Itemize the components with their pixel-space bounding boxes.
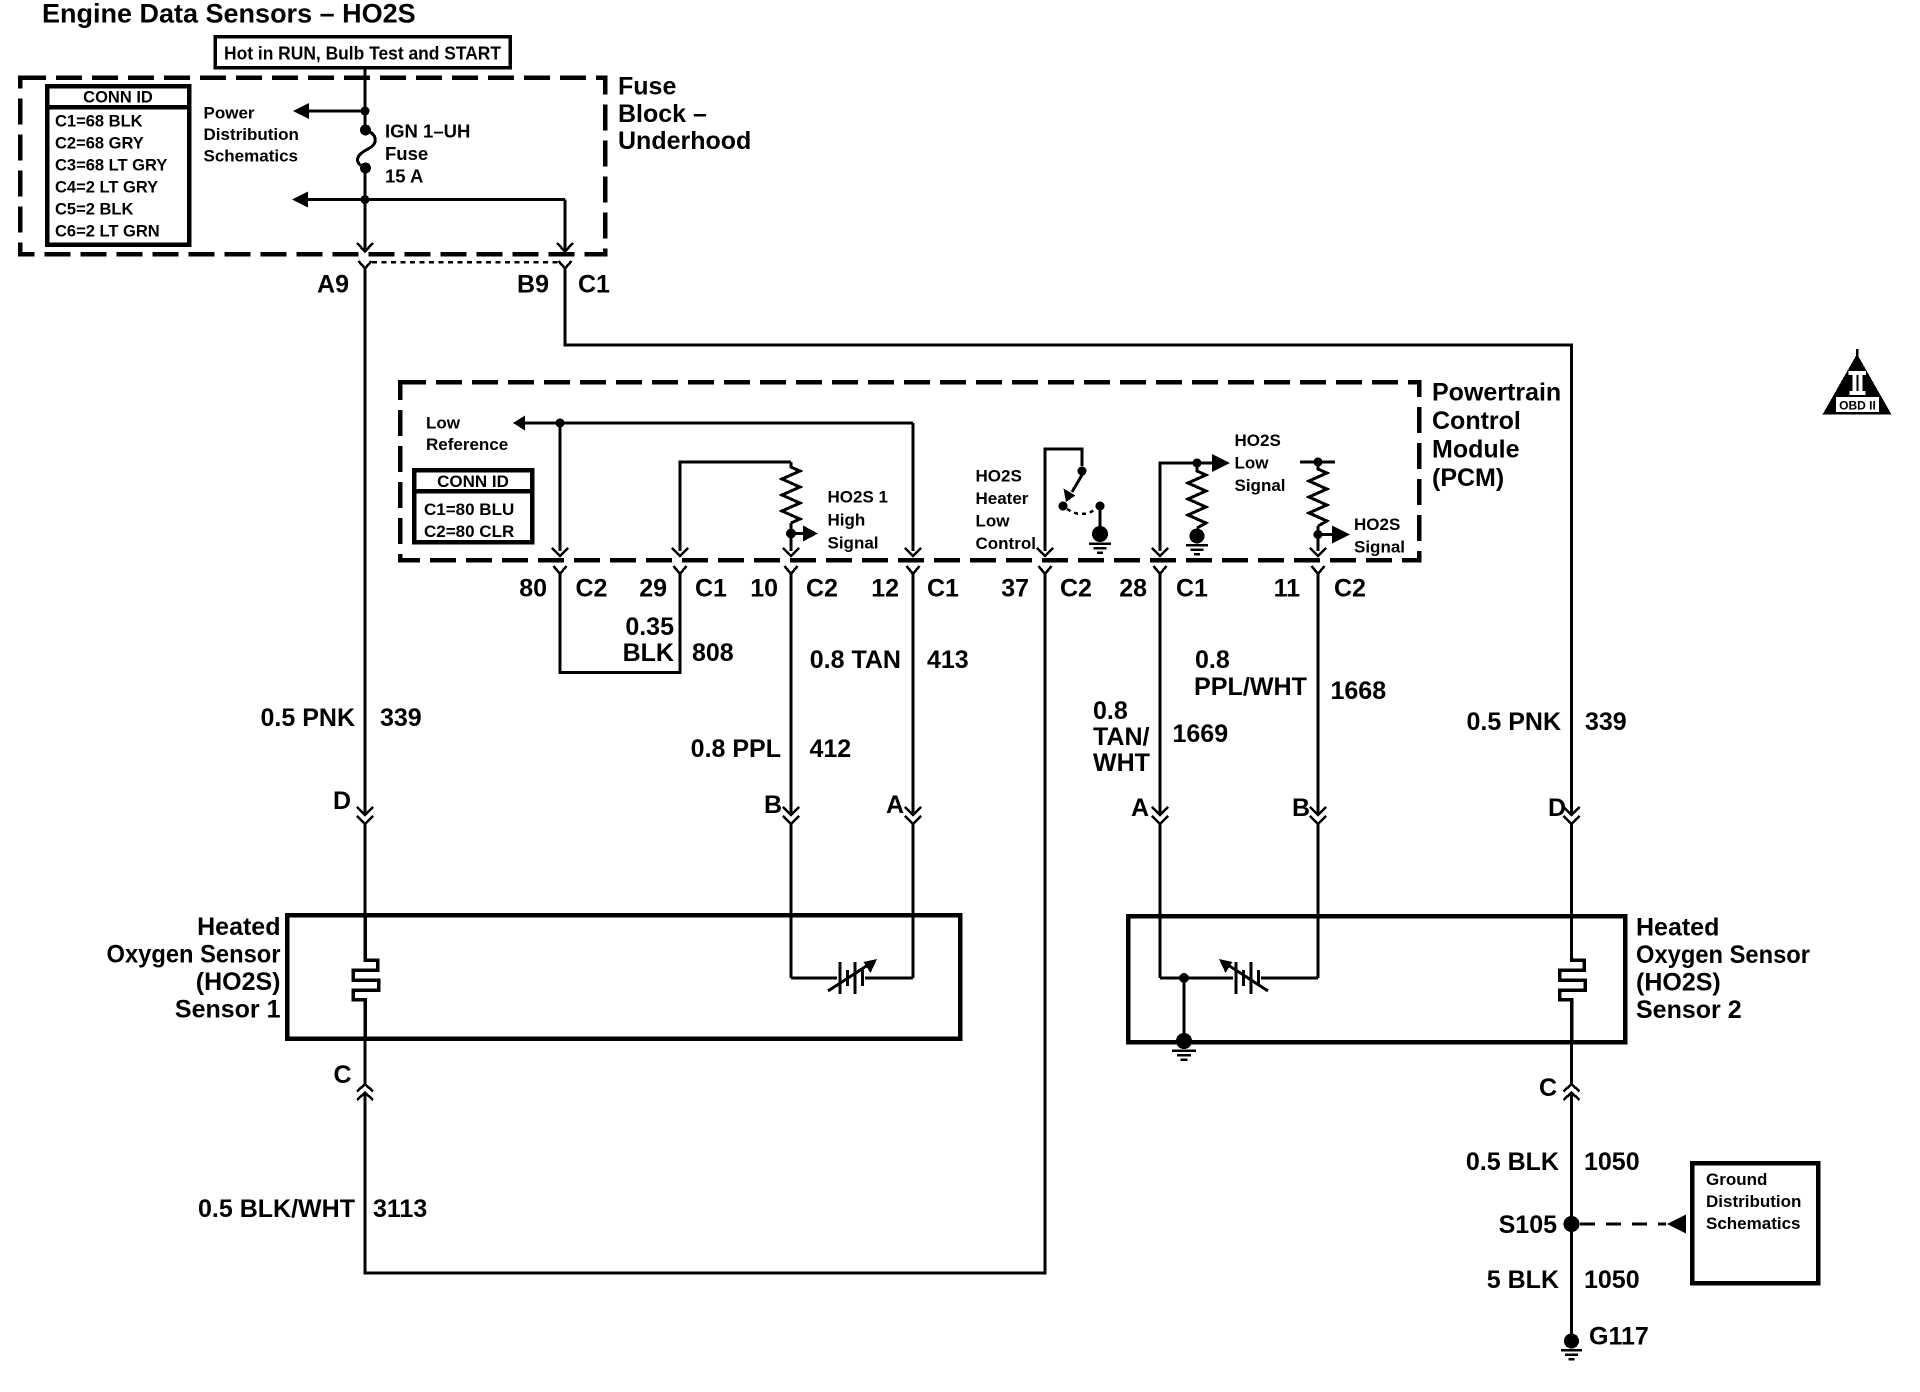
svg-text:5 BLK: 5 BLK (1487, 1266, 1559, 1294)
svg-text:0.8 TAN: 0.8 TAN (810, 646, 901, 674)
wire: sensor 2 pin C to S105 (0.5 BLK 1050) (1570, 1093, 1573, 1225)
arrowhead pin 10 (783, 548, 799, 556)
wire: into sensor 1 cell (790, 824, 793, 978)
wire: chevron into sensor1 heater (364, 824, 367, 917)
ground (HO2S low signal, inside PCM) (1186, 529, 1208, 555)
wire: pin 10 to sensor 1 (0.8 PPL 412) (790, 574, 793, 815)
heater element (sensor 2) (1560, 958, 1586, 1042)
wire: A9 down to HO2S sensor 1 (0.5 PNK 339) (364, 269, 367, 816)
splice S105 (1564, 1216, 1580, 1232)
svg-text:C1=80 BLU: C1=80 BLU (424, 500, 514, 519)
pin 11 C2 (1274, 566, 1366, 603)
connector C (sensor 1) chevrons (357, 1084, 373, 1100)
pin 80 C2 (519, 566, 607, 603)
svg-text:D: D (1548, 794, 1566, 822)
svg-text:3113: 3113 (373, 1195, 427, 1223)
svg-text:G117: G117 (1589, 1323, 1649, 1351)
label box: Hot in RUN, Bulb Test and START (215, 37, 510, 68)
wire: into sensor 1 cell (right) (912, 824, 915, 978)
connector D (sensor 1) chevrons (357, 807, 373, 824)
connector A (sensor 2) chevrons (1152, 807, 1168, 824)
wire: into sensor 2 (1317, 824, 1320, 978)
svg-text:C2=68 GRY: C2=68 GRY (55, 135, 144, 153)
svg-text:1050: 1050 (1584, 1148, 1640, 1176)
svg-text:339: 339 (380, 704, 422, 732)
wire: pin 11 to sensor 2 (0.8 PPL/WHT 1668) (1317, 574, 1320, 815)
wire: Hot-in-RUN box down to fuse (364, 68, 367, 131)
svg-text:339: 339 (1585, 708, 1627, 736)
svg-text:1050: 1050 (1584, 1266, 1640, 1294)
arrowhead pin 29 (672, 548, 688, 556)
CONN ID table (fuse block) (47, 86, 189, 245)
svg-text:C1: C1 (578, 271, 610, 299)
svg-text:C1=68 BLK: C1=68 BLK (55, 113, 143, 131)
svg-text:B: B (764, 791, 782, 819)
HO2S sensor 2 box (1128, 916, 1625, 1042)
ground (switch, inside PCM) (1089, 526, 1111, 553)
arrowhead pin 12 (905, 548, 921, 556)
HO2S sensor 1 box (287, 915, 960, 1039)
svg-text:1669: 1669 (1173, 720, 1229, 748)
wire: to pin 80 (559, 423, 562, 551)
svg-text:412: 412 (810, 735, 852, 763)
junction node below HO2S signal resistor (1314, 530, 1323, 539)
svg-text:B: B (1292, 794, 1310, 822)
OBD II emissions symbol (1823, 349, 1892, 415)
signal tap arrow (HO2S 1 High Signal) (791, 526, 818, 542)
svg-text:0.5 PNK: 0.5 PNK (261, 704, 355, 732)
junction node below resistor (786, 529, 796, 539)
svg-text:C2: C2 (1060, 575, 1092, 603)
svg-text:C2: C2 (1334, 575, 1366, 603)
svg-text:413: 413 (927, 646, 969, 674)
svg-text:29: 29 (639, 575, 667, 603)
arrowhead into A9 (357, 243, 373, 252)
connector D (sensor 2) chevrons (1564, 807, 1580, 824)
connector A9 (Y) (359, 261, 372, 269)
wire: sensor 1 heater to pin C (364, 1038, 367, 1084)
svg-text:A9: A9 (317, 271, 349, 299)
case ground (sensor 2) (1172, 1033, 1196, 1060)
wire: B9/C1 across top to right side (heater feed sensor 2) (565, 269, 1572, 816)
resistor: HO2S Signal (1309, 462, 1327, 526)
wire: jumper pin 80 to pin 29 (0.35 BLK 808) (560, 574, 680, 673)
svg-text:B9: B9 (517, 271, 549, 299)
svg-text:C2=80 CLR: C2=80 CLR (424, 522, 514, 541)
pin 12 C1 (871, 566, 959, 603)
svg-text:Hot in RUN, Bulb Test and STAR: Hot in RUN, Bulb Test and START (224, 43, 502, 64)
dashed reference to Ground Distribution Schematics (1580, 1215, 1686, 1234)
fuse IGN 1-UH 15 A (358, 125, 376, 174)
svg-text:C2: C2 (576, 575, 608, 603)
svg-text:80: 80 (519, 575, 547, 603)
resistor: HO2S 1 High Signal (782, 462, 800, 523)
connector B (sensor 2) chevrons (1310, 807, 1326, 824)
svg-text:S105: S105 (1499, 1211, 1557, 1239)
wire: cell low to case ground (1183, 978, 1186, 1040)
wire: pin 12 to sensor 1 (0.8 TAN 413) (912, 574, 915, 815)
svg-text:CONN ID: CONN ID (437, 472, 509, 491)
connector A (sensor 1) chevrons (905, 807, 921, 824)
arrowhead pin 28 (1152, 548, 1168, 556)
wire: S105 to G117 (5 BLK 1050) (1570, 1224, 1573, 1336)
signal tap arrow (HO2S Signal) (1318, 526, 1350, 544)
PCM dashed box (400, 382, 1419, 560)
svg-text:0.5 BLK: 0.5 BLK (1466, 1148, 1559, 1176)
resistor: HO2S Low Signal pull (1188, 463, 1206, 528)
junction node (HO2S low signal) (1193, 459, 1202, 468)
svg-text:BLK: BLK (623, 639, 674, 667)
sensing cell (sensor 1) (791, 959, 913, 994)
wire: into sensor 2 (1159, 824, 1162, 978)
svg-text:CONN ID: CONN ID (83, 89, 153, 107)
svg-text:0.5 PNK: 0.5 PNK (1467, 708, 1561, 736)
junction node (low ref / pin 80) (556, 419, 565, 428)
svg-text:0.8 PPL: 0.8 PPL (691, 735, 781, 763)
wire: branch down to B9 (564, 200, 567, 251)
wire: pin 28 riser (1160, 463, 1193, 551)
ground G117 (1561, 1334, 1582, 1360)
svg-text:C: C (333, 1061, 351, 1089)
sensing cell (sensor 2) (1160, 959, 1318, 994)
fuse block dashed box: Fuse Block - Underhood (20, 78, 605, 255)
pin 37 C2 (1001, 566, 1092, 603)
wire: pin 28 to sensor 2 (0.8 TAN/WHT 1669) (1159, 574, 1162, 815)
svg-text:D: D (333, 787, 351, 815)
wire: fuse to A9 (364, 168, 367, 251)
wire: to pin 11 (1317, 526, 1320, 551)
pin 10 C2 (750, 566, 838, 603)
heater element (sensor 1) (353, 917, 379, 1038)
junction node atop HO2S signal resistor (1314, 458, 1323, 467)
svg-text:10: 10 (750, 575, 778, 603)
pin 29 C1 (639, 566, 727, 603)
svg-text:Engine Data Sensors – HO2S: Engine Data Sensors – HO2S (42, 0, 416, 29)
CONN ID table (PCM) (414, 470, 532, 542)
connector bus dotted line A9-B9 (372, 261, 558, 264)
svg-text:C1: C1 (927, 575, 959, 603)
connector B (sensor 1) chevrons (783, 807, 799, 824)
wire: resistor to pin 10 (790, 523, 793, 551)
arrow to Power Distribution Schematics (lower) + branch to B9 (292, 192, 565, 208)
junction node (sensor 2 cell low) (1179, 973, 1189, 983)
pin 28 C1 (1119, 566, 1208, 603)
svg-text:808: 808 (692, 639, 734, 667)
Low Reference arrow + wire to pin 12 (513, 416, 913, 552)
svg-text:11: 11 (1274, 575, 1301, 603)
connector B9 (Y) (559, 261, 572, 269)
arrow to Power Distribution Schematics (upper) (293, 103, 365, 119)
svg-text:C6=2 LT GRN: C6=2 LT GRN (55, 223, 160, 241)
svg-text:12: 12 (871, 575, 899, 603)
svg-text:A: A (886, 791, 904, 819)
svg-text:28: 28 (1119, 575, 1147, 603)
connector C (sensor 2) chevrons (1564, 1042, 1580, 1100)
junction node at fuse output (361, 195, 370, 204)
svg-text:C2: C2 (806, 575, 838, 603)
internal tie bar (pin 11) (1300, 461, 1335, 464)
wire: pin 37 down and across to sensor 1 pin C (0.5 BLK/WHT 3113) (365, 574, 1045, 1273)
box: Ground Distribution Schematics (1692, 1163, 1818, 1283)
svg-text:0.5 BLK/WHT: 0.5 BLK/WHT (198, 1195, 355, 1223)
arrowhead pin 37 (1037, 548, 1053, 556)
svg-text:0.35: 0.35 (625, 613, 674, 641)
signal tap arrow (HO2S Low Signal) (1197, 454, 1230, 472)
svg-text:OBD II: OBD II (1839, 399, 1876, 413)
svg-text:C3=68 LT GRY: C3=68 LT GRY (55, 157, 167, 175)
svg-text:C4=2 LT GRY: C4=2 LT GRY (55, 179, 158, 197)
svg-text:C1: C1 (695, 575, 727, 603)
arrowhead into B9 (557, 243, 573, 252)
wire: sensor 2 heater to pin C (1570, 918, 1573, 960)
wire: chevron into sensor 2 heater (1570, 824, 1573, 918)
svg-text:C: C (1539, 1074, 1557, 1102)
svg-text:37: 37 (1001, 575, 1029, 603)
arrowhead pin 11 (1310, 548, 1326, 556)
junction node on fuse feed (361, 107, 370, 116)
svg-text:C1: C1 (1176, 575, 1208, 603)
heater driver switch (pin 37) (1045, 449, 1105, 551)
svg-text:C5=2 BLK: C5=2 BLK (55, 201, 133, 219)
arrowhead pin 80 (552, 548, 568, 556)
svg-text:1668: 1668 (1331, 677, 1387, 705)
svg-text:A: A (1131, 794, 1149, 822)
wire: pin 29 to resistor (680, 462, 791, 551)
